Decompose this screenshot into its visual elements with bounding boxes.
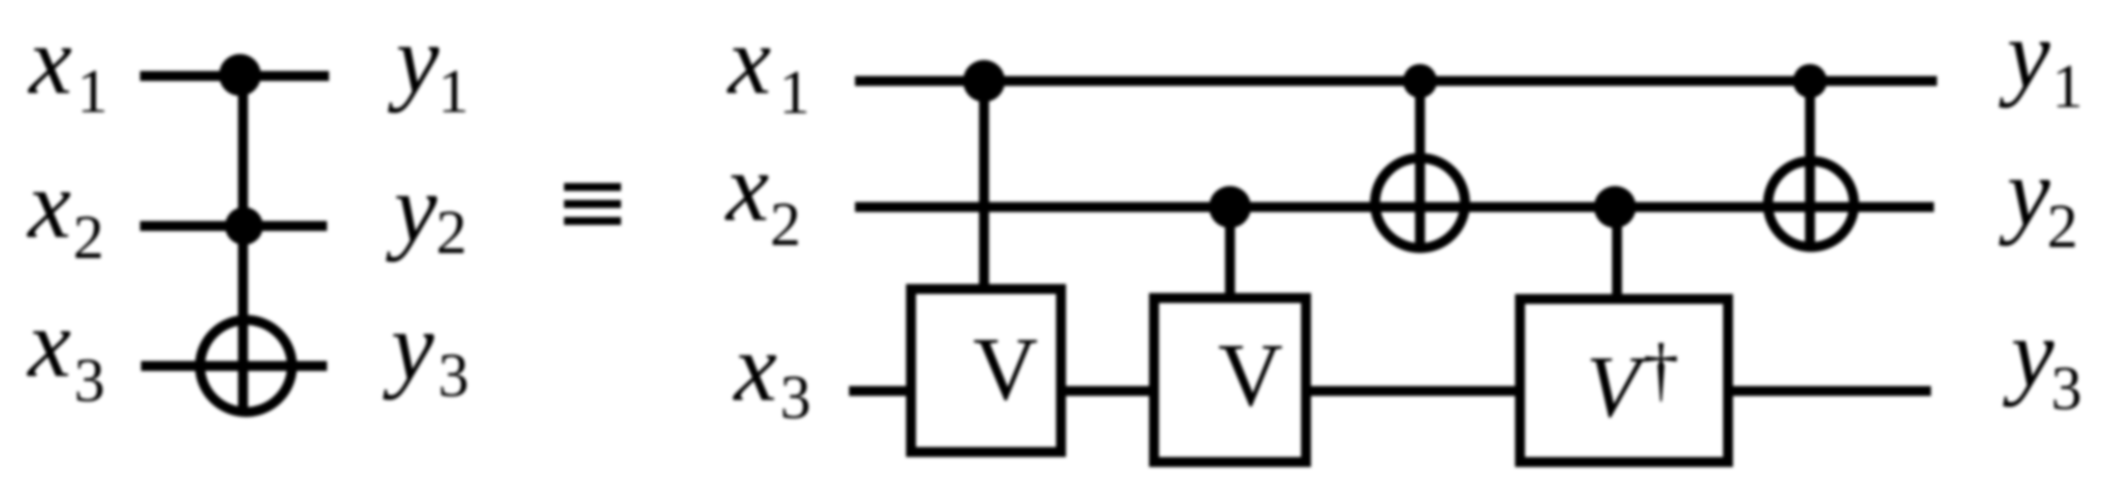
- svg-text:3: 3: [438, 342, 469, 410]
- node y3 label (left circuit output): [382, 293, 469, 410]
- svg-text:3: 3: [2051, 355, 2082, 423]
- svg-text:V: V: [973, 320, 1038, 419]
- svg-text:2: 2: [73, 204, 104, 272]
- node x1 label (right circuit input): [726, 7, 810, 127]
- svg-text:V: V: [1218, 326, 1283, 425]
- gate U3 value label V-dagger: [1586, 329, 1679, 436]
- svg-text:3: 3: [74, 347, 105, 415]
- node x3 label (right circuit input): [732, 314, 811, 432]
- svg-text:x: x: [26, 290, 71, 397]
- wire qubit-2 (right circuit): [855, 202, 1934, 212]
- wire vertical control line for controlled-V U1: [979, 81, 989, 286]
- svg-text:1: 1: [438, 58, 469, 126]
- control dot on qubit-2 for U2: [1209, 186, 1251, 228]
- svg-text:x: x: [726, 7, 771, 114]
- svg-text:3: 3: [780, 364, 811, 432]
- control dot on qubit-1 (left Toffoli): [219, 54, 261, 96]
- wire qubit-1 (right circuit): [855, 76, 1937, 86]
- node y1 label (left circuit output): [387, 6, 469, 126]
- controlled-Vdag gate U3 box: [1520, 299, 1728, 462]
- control dot on qubit-2 for U3: [1594, 186, 1636, 228]
- CNOT target XOR on qubit-3 (left Toffoli): [200, 320, 292, 412]
- wire qubit-3 segment input to V box U1: [849, 386, 906, 396]
- node y2 label (left circuit output): [385, 155, 467, 267]
- node y2 label (right circuit output): [1998, 139, 2078, 261]
- gate U2 value label V: [1218, 326, 1283, 425]
- svg-text:x: x: [26, 151, 71, 258]
- node x2 label (right circuit input): [724, 134, 801, 259]
- CNOT-2 target XOR on qubit-2: [1768, 161, 1854, 247]
- control dot on qubit-1 for U1: [963, 60, 1005, 102]
- svg-text:2: 2: [436, 199, 467, 267]
- control dot on qubit-1 for CNOT-2: [1793, 64, 1827, 98]
- wire vertical control line for CNOT-1 (right circuit): [1415, 81, 1425, 250]
- wire vertical control line (left Toffoli): [238, 76, 248, 414]
- controlled-V gate U1 box: [911, 289, 1061, 452]
- gate U1 value label V: [973, 320, 1038, 419]
- svg-text:2: 2: [770, 191, 801, 259]
- svg-text:1: 1: [77, 58, 108, 126]
- svg-text:2: 2: [2047, 193, 2078, 261]
- wire qubit-3 segment U3 to output: [1733, 386, 1931, 396]
- svg-text:x: x: [724, 134, 769, 241]
- wire qubit-2 (left Toffoli circuit): [140, 221, 327, 231]
- control dot on qubit-2 (left Toffoli): [225, 207, 263, 245]
- node x2 label (left circuit input): [26, 151, 104, 272]
- wire qubit-3 (left Toffoli circuit): [141, 361, 327, 371]
- svg-text:V: V: [1586, 339, 1649, 436]
- wire vertical control line for controlled-Vdag U3: [1612, 207, 1622, 296]
- wire qubit-3 segment between U2 and U3: [1311, 386, 1515, 396]
- node y3 label (right circuit output): [2002, 300, 2082, 423]
- svg-text:†: †: [1643, 329, 1679, 409]
- equivalence symbol: [564, 183, 621, 225]
- wire qubit-1 (left Toffoli circuit): [140, 71, 329, 81]
- node x1 label (left circuit input): [27, 7, 108, 126]
- controlled-V gate U2 box: [1154, 298, 1306, 462]
- CNOT-1 target XOR on qubit-2: [1375, 158, 1465, 248]
- node x3 label (left circuit input): [26, 290, 105, 415]
- svg-text:x: x: [27, 7, 72, 114]
- wire vertical control line for CNOT-2 (right circuit): [1805, 81, 1815, 249]
- wire vertical control line for controlled-V U2: [1225, 207, 1235, 295]
- svg-text:x: x: [732, 314, 777, 421]
- wire qubit-3 segment between U1 and U2: [1066, 386, 1149, 396]
- svg-text:1: 1: [779, 59, 810, 127]
- control dot on qubit-1 for CNOT-1: [1403, 64, 1437, 98]
- node y1 label (right circuit output): [1998, 1, 2083, 121]
- svg-text:1: 1: [2052, 53, 2083, 121]
